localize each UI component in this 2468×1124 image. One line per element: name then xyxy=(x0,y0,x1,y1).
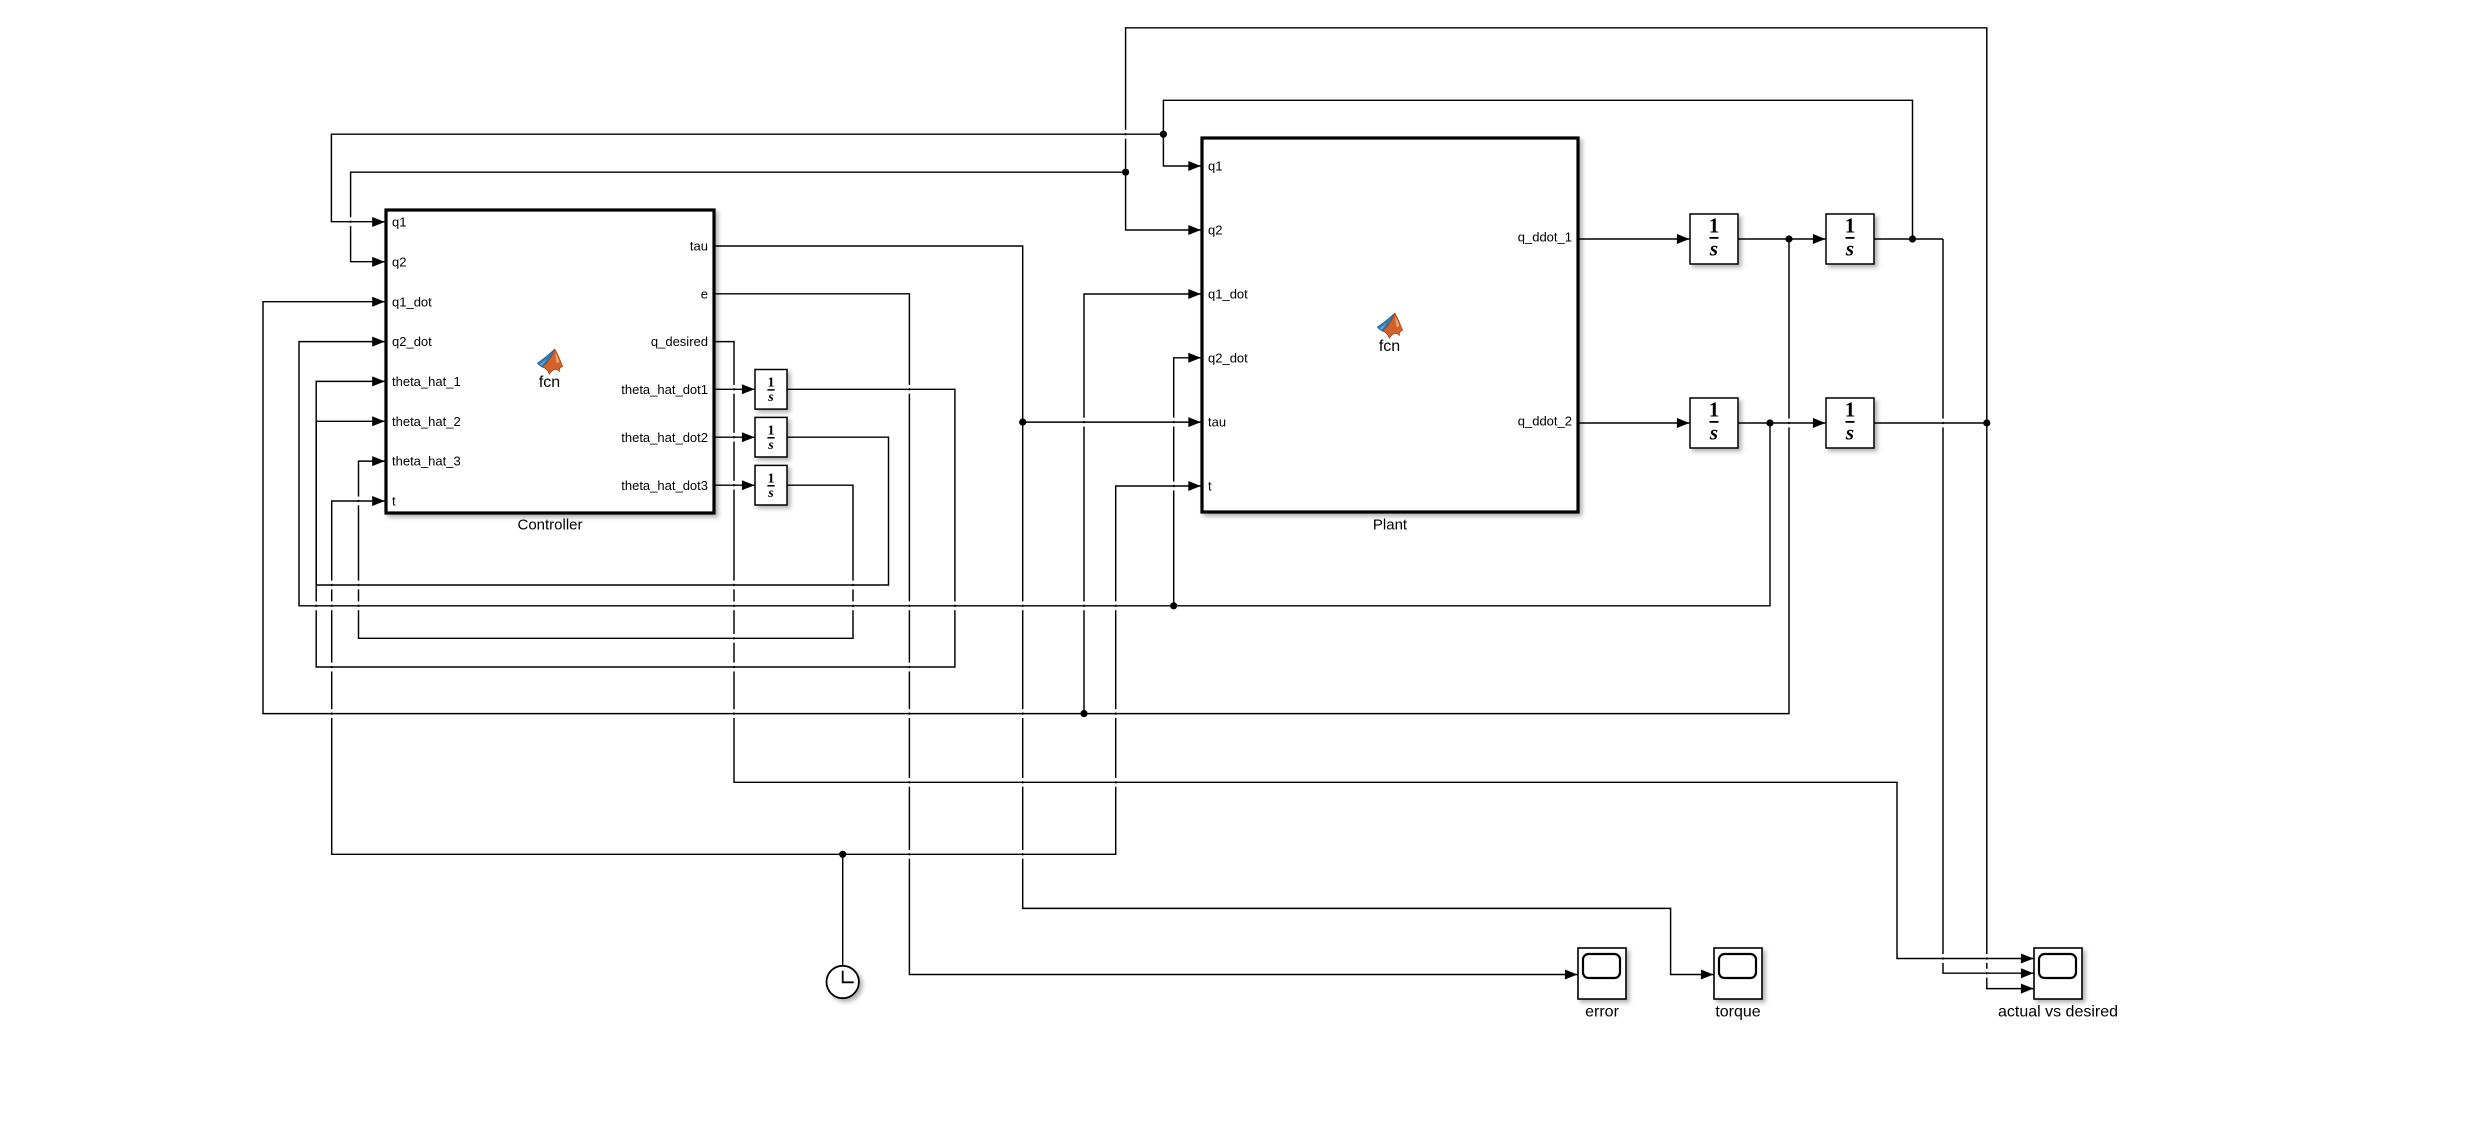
integrator q1_dot to q1 (1/s) xyxy=(1826,214,1874,265)
svg-text:error: error xyxy=(1585,1004,1619,1021)
scope torque xyxy=(1714,948,1762,999)
junction q1_dot to Plant tap xyxy=(1080,710,1087,717)
svg-text:1: 1 xyxy=(768,471,775,486)
wire integrator C to integrator D (q2_dot) xyxy=(1738,422,1826,424)
svg-text:1: 1 xyxy=(1709,398,1720,422)
fcn icon of Plant xyxy=(1377,313,1402,355)
wire integrator A to integrator B (q1_dot) xyxy=(1738,238,1826,240)
svg-text:1: 1 xyxy=(768,423,775,438)
svg-text:Plant: Plant xyxy=(1373,517,1408,534)
junction tau tap xyxy=(1019,419,1026,426)
svg-text:q1: q1 xyxy=(1208,159,1222,174)
svg-text:q_ddot_1: q_ddot_1 xyxy=(1518,229,1572,244)
svg-text:1: 1 xyxy=(768,375,775,390)
scope actual vs desired xyxy=(2034,948,2082,999)
junction q2_dot tap xyxy=(1766,419,1773,426)
svg-text:s: s xyxy=(1709,420,1718,444)
svg-text:tau: tau xyxy=(1208,415,1226,430)
svg-text:theta_hat_3: theta_hat_3 xyxy=(392,454,461,469)
wire net q2 (integrator output to Plant q2, Controller q2, scope) xyxy=(351,28,2034,989)
junction q2 to Controller tap xyxy=(1122,169,1129,176)
svg-text:s: s xyxy=(767,438,774,453)
svg-text:q_desired: q_desired xyxy=(651,334,708,349)
wire net theta_hat_3 feedback xyxy=(359,461,854,638)
wire crossing breaks xyxy=(315,130,1988,978)
svg-text:q_ddot_2: q_ddot_2 xyxy=(1518,413,1572,428)
arrowheads into scopes xyxy=(1565,954,2034,994)
svg-text:1: 1 xyxy=(1709,214,1720,238)
svg-text:q1_dot: q1_dot xyxy=(392,294,432,309)
svg-text:t: t xyxy=(392,494,396,509)
arrowheads into Controller inputs xyxy=(372,217,385,506)
integrator q2_dot to q2 (1/s) xyxy=(1826,398,1874,449)
svg-text:fcn: fcn xyxy=(539,374,560,391)
svg-text:q2_dot: q2_dot xyxy=(1208,350,1248,365)
wire net q1 (integrator output to Plant q1, Controller q1, scope) xyxy=(331,100,2033,973)
junction q1 tap xyxy=(1909,235,1916,242)
svg-text:tau: tau xyxy=(690,239,708,254)
svg-text:t: t xyxy=(1208,479,1212,494)
wire net q1_dot feedback to Controller and Plant xyxy=(263,239,1789,714)
fcn icon of Controller xyxy=(537,349,562,391)
arrowheads into small integrators xyxy=(742,384,755,490)
wire net tau (Controller tau to Plant tau and torque scope) xyxy=(714,246,1714,975)
arrowheads into Plant inputs xyxy=(1188,161,1201,491)
clock block xyxy=(827,966,859,998)
svg-text:q1_dot: q1_dot xyxy=(1208,287,1248,302)
svg-text:theta_hat_dot3: theta_hat_dot3 xyxy=(621,478,708,493)
svg-text:1: 1 xyxy=(1845,214,1856,238)
integrator theta_hat_1 (1/s) xyxy=(755,370,787,410)
svg-text:s: s xyxy=(767,486,774,501)
svg-text:theta_hat_1: theta_hat_1 xyxy=(392,374,461,389)
scope error xyxy=(1578,948,1626,999)
junction q1_dot tap xyxy=(1785,235,1792,242)
svg-text:q2: q2 xyxy=(1208,223,1222,238)
MATLAB Function block Controller xyxy=(386,210,714,513)
svg-text:q1: q1 xyxy=(392,215,406,230)
svg-text:fcn: fcn xyxy=(1379,338,1400,355)
junction q2 tap xyxy=(1983,419,1990,426)
svg-text:q2: q2 xyxy=(392,255,406,270)
svg-text:Controller: Controller xyxy=(517,517,582,534)
svg-text:theta_hat_2: theta_hat_2 xyxy=(392,414,461,429)
junction clock t tap xyxy=(839,851,846,858)
MATLAB Function block Plant xyxy=(1202,138,1578,512)
wire q_ddot_1 (Plant output 1 to integrator) xyxy=(1578,238,1690,240)
svg-text:torque: torque xyxy=(1715,1004,1760,1021)
wire net e (Controller e to error scope) xyxy=(714,294,1578,975)
svg-text:1: 1 xyxy=(1845,398,1856,422)
wire net q_desired (Controller to scope actual vs desired) xyxy=(714,342,2034,959)
integrator q_ddot_2 to q2_dot (1/s) xyxy=(1690,398,1738,449)
svg-text:actual vs desired: actual vs desired xyxy=(1998,1004,2118,1021)
svg-text:s: s xyxy=(1845,420,1854,444)
svg-text:s: s xyxy=(767,390,774,405)
svg-text:s: s xyxy=(1709,236,1718,260)
svg-text:q2_dot: q2_dot xyxy=(392,334,432,349)
wire q_ddot_2 (Plant output 2 to integrator) xyxy=(1578,422,1690,424)
wire theta_hat_dot2 (Controller to integrator) xyxy=(714,436,755,438)
wire theta_hat_dot3 (Controller to integrator) xyxy=(714,484,755,486)
wire net t (Clock to Controller t and Plant t) xyxy=(332,486,1201,966)
integrator theta_hat_3 (1/s) xyxy=(755,465,787,505)
wire net q2_dot feedback to Controller and Plant xyxy=(299,342,1770,606)
integrator theta_hat_2 (1/s) xyxy=(755,417,787,457)
junction q1 to Controller tap xyxy=(1160,131,1167,138)
svg-text:theta_hat_dot2: theta_hat_dot2 xyxy=(621,430,708,445)
svg-text:e: e xyxy=(701,286,708,301)
junction q2_dot to Plant tap xyxy=(1170,602,1177,609)
svg-text:s: s xyxy=(1845,236,1854,260)
wire theta_hat_dot1 (Controller to integrator) xyxy=(714,388,755,390)
arrowheads into big integrators xyxy=(1677,234,1826,428)
svg-text:theta_hat_dot1: theta_hat_dot1 xyxy=(621,382,708,397)
wire net theta_hat_1 feedback xyxy=(316,381,955,667)
integrator q_ddot_1 to q1_dot (1/s) xyxy=(1690,214,1738,265)
wire net theta_hat_2 feedback xyxy=(316,421,888,585)
